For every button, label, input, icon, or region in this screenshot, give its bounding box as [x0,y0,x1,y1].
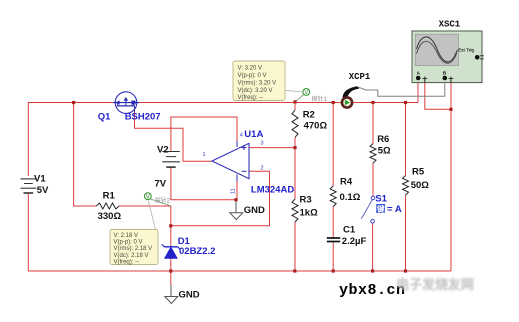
wire op-amp pin11 stub [236,180,238,200]
junction dot rail D1 [169,269,172,272]
wire R3 top [294,148,296,199]
transistor Q1 BSH207 (p-MOSFET) [98,92,161,123]
svg-text:XSC1: XSC1 [439,19,461,29]
watermark faint logo [396,274,474,293]
svg-text:3: 3 [261,140,264,146]
svg-text:V2: V2 [157,145,169,156]
svg-text:V: 2.18 V: V: 2.18 V [114,233,138,239]
watermark ybx8.cn [339,282,406,299]
ground GND (op-amp pin 11) [230,200,265,220]
svg-text:2: 2 [261,166,264,172]
svg-text:470Ω: 470Ω [304,121,328,132]
svg-text:330Ω: 330Ω [98,211,122,222]
wire R3 bottom to rail [294,222,296,271]
svg-text:4: 4 [240,133,243,139]
svg-text:R3: R3 [300,195,312,206]
svg-text:5Ω: 5Ω [378,145,391,156]
svg-text:V(p-p): 0 V: V(p-p): 0 V [238,73,267,79]
svg-text:S1: S1 [375,194,387,205]
wire V2 minus to op-amp ground node [171,167,236,199]
svg-text:V: V [146,195,150,201]
svg-text:C1: C1 [343,225,356,236]
svg-text:2.2µF: 2.2µF [342,236,367,247]
junction dot top rail R5 node [404,101,407,104]
op-amp U1A LM324AD (mirrored, output left) [203,129,295,196]
junction dot top rail R1 branch [72,101,75,104]
resistor R5 [403,167,430,196]
wire R6 bottom to S1 [372,163,374,196]
oscilloscope XSC1 [412,19,484,82]
svg-text:A: A [417,71,421,77]
battery V2 [155,145,180,190]
wire node D1 top to op-amp inverting input [171,171,270,226]
svg-text:V(rms): 3.20 V: V(rms): 3.20 V [238,81,277,87]
wire R5 top from rail [405,103,407,176]
svg-text:5V: 5V [37,185,49,196]
wire D1 bottom to ground rail [170,258,172,271]
probe 1 (voltage probe at output node) [296,89,328,104]
wire op-amp pin4 to V2 plus [171,117,237,152]
junction dot scope ground corner [449,108,452,111]
svg-text:0.1Ω: 0.1Ω [340,192,361,203]
resistor R3 [292,195,318,223]
svg-text:Q1: Q1 [98,111,111,122]
svg-text:GND: GND [179,290,200,301]
junction dot op-amp ground node [234,198,237,201]
wire R4 top from rail [332,103,334,187]
zener diode D1 02BZ2.2 [162,236,216,258]
battery V1 [21,174,49,196]
wire R2 bottom stub [294,138,296,148]
junction dot rail S1 [371,269,374,272]
wire Q1 gate to op-amp output [135,112,212,161]
wire R4 bottom to C1 [332,207,334,238]
svg-text:02BZ2.2: 02BZ2.2 [179,246,215,257]
svg-text:R1: R1 [103,190,116,201]
svg-text:11: 11 [231,188,237,194]
svg-text:V(dc): 3.20 V: V(dc): 3.20 V [238,88,273,94]
svg-text:R5: R5 [412,167,425,178]
svg-text:XCP1: XCP1 [349,72,371,82]
svg-text:探针1: 探针1 [312,95,328,103]
switch S1 [361,194,402,224]
junction dot rail R3 [293,269,296,272]
junction dot D1 top node [169,224,172,227]
tooltip for probe 2 [110,201,158,266]
svg-text:U1A: U1A [244,129,263,140]
wire R1 branch from top rail down and across [74,103,97,207]
junction dot top rail R4 node [332,101,335,104]
wire scope A+ to top rail [417,83,419,103]
junction dot top rail R2 node [293,100,296,103]
wire D1 top stub [170,226,172,247]
svg-text:B: B [443,71,447,77]
svg-text:V(rms): 2.18 V: V(rms): 2.18 V [114,246,153,252]
wire R2 top stub [294,103,296,111]
svg-text:GND: GND [244,205,265,216]
svg-text:R4: R4 [340,176,353,187]
svg-text:LM324AD: LM324AD [251,185,294,196]
svg-text:V(freq): --: V(freq): -- [238,95,264,101]
svg-text:Ext Trig: Ext Trig [458,47,474,52]
tooltip for probe 1 [233,61,303,101]
current probe XCP1 [342,72,371,108]
svg-text:7V: 7V [155,178,167,189]
wire R5 bottom to rail [405,195,407,271]
wire right edge vertical (scope B- to ground rail) [450,83,452,271]
svg-text:V(p-p): 0 V: V(p-p): 0 V [114,240,143,246]
probe 2 (voltage probe at zener node) [144,193,170,206]
resistor R2 [292,109,327,137]
wire R1 right to D1 top node [119,206,171,226]
svg-text:= A: = A [387,204,402,215]
resistor R6 [370,134,391,163]
junction dot R2/R3 + input node [293,146,296,149]
resistor R1 [96,190,121,222]
svg-text:键: 键 [376,204,385,214]
wire R6 top from rail [372,103,374,144]
svg-text:1kΩ: 1kΩ [300,208,319,219]
svg-text:V(freq): --: V(freq): -- [114,260,140,266]
ground GND (bottom, under D1) [165,271,200,304]
svg-text:R6: R6 [377,134,389,145]
junction dot top rail R6 node [371,101,374,104]
svg-text:BSH207: BSH207 [125,111,161,122]
svg-text:V(dc): 2.18 V: V(dc): 2.18 V [114,253,149,259]
svg-text:探针2: 探针2 [155,197,171,205]
capacitor C1 [327,225,367,247]
svg-text:1: 1 [203,152,206,158]
wire non-inverting input to R2/R3 node [249,147,295,149]
svg-text:50Ω: 50Ω [411,180,430,191]
wire bottom ground rail [28,194,451,272]
wire scope B+ to current probe output (gray) [359,83,445,97]
wire scope A- to ground via right edge [425,83,451,110]
resistor R4 [330,176,361,206]
wire S1 bottom to rail [372,223,374,271]
svg-text:V1: V1 [34,174,46,185]
svg-text:V: 3.20 V: V: 3.20 V [238,66,262,72]
wire top rail from V1 to scope A+ [28,103,418,177]
junction dot rail R5 [404,269,407,272]
svg-text:R2: R2 [303,109,315,120]
wire C1 bottom to rail [332,242,334,271]
junction dot rail C1 [332,269,335,272]
svg-text:V: V [304,90,308,96]
